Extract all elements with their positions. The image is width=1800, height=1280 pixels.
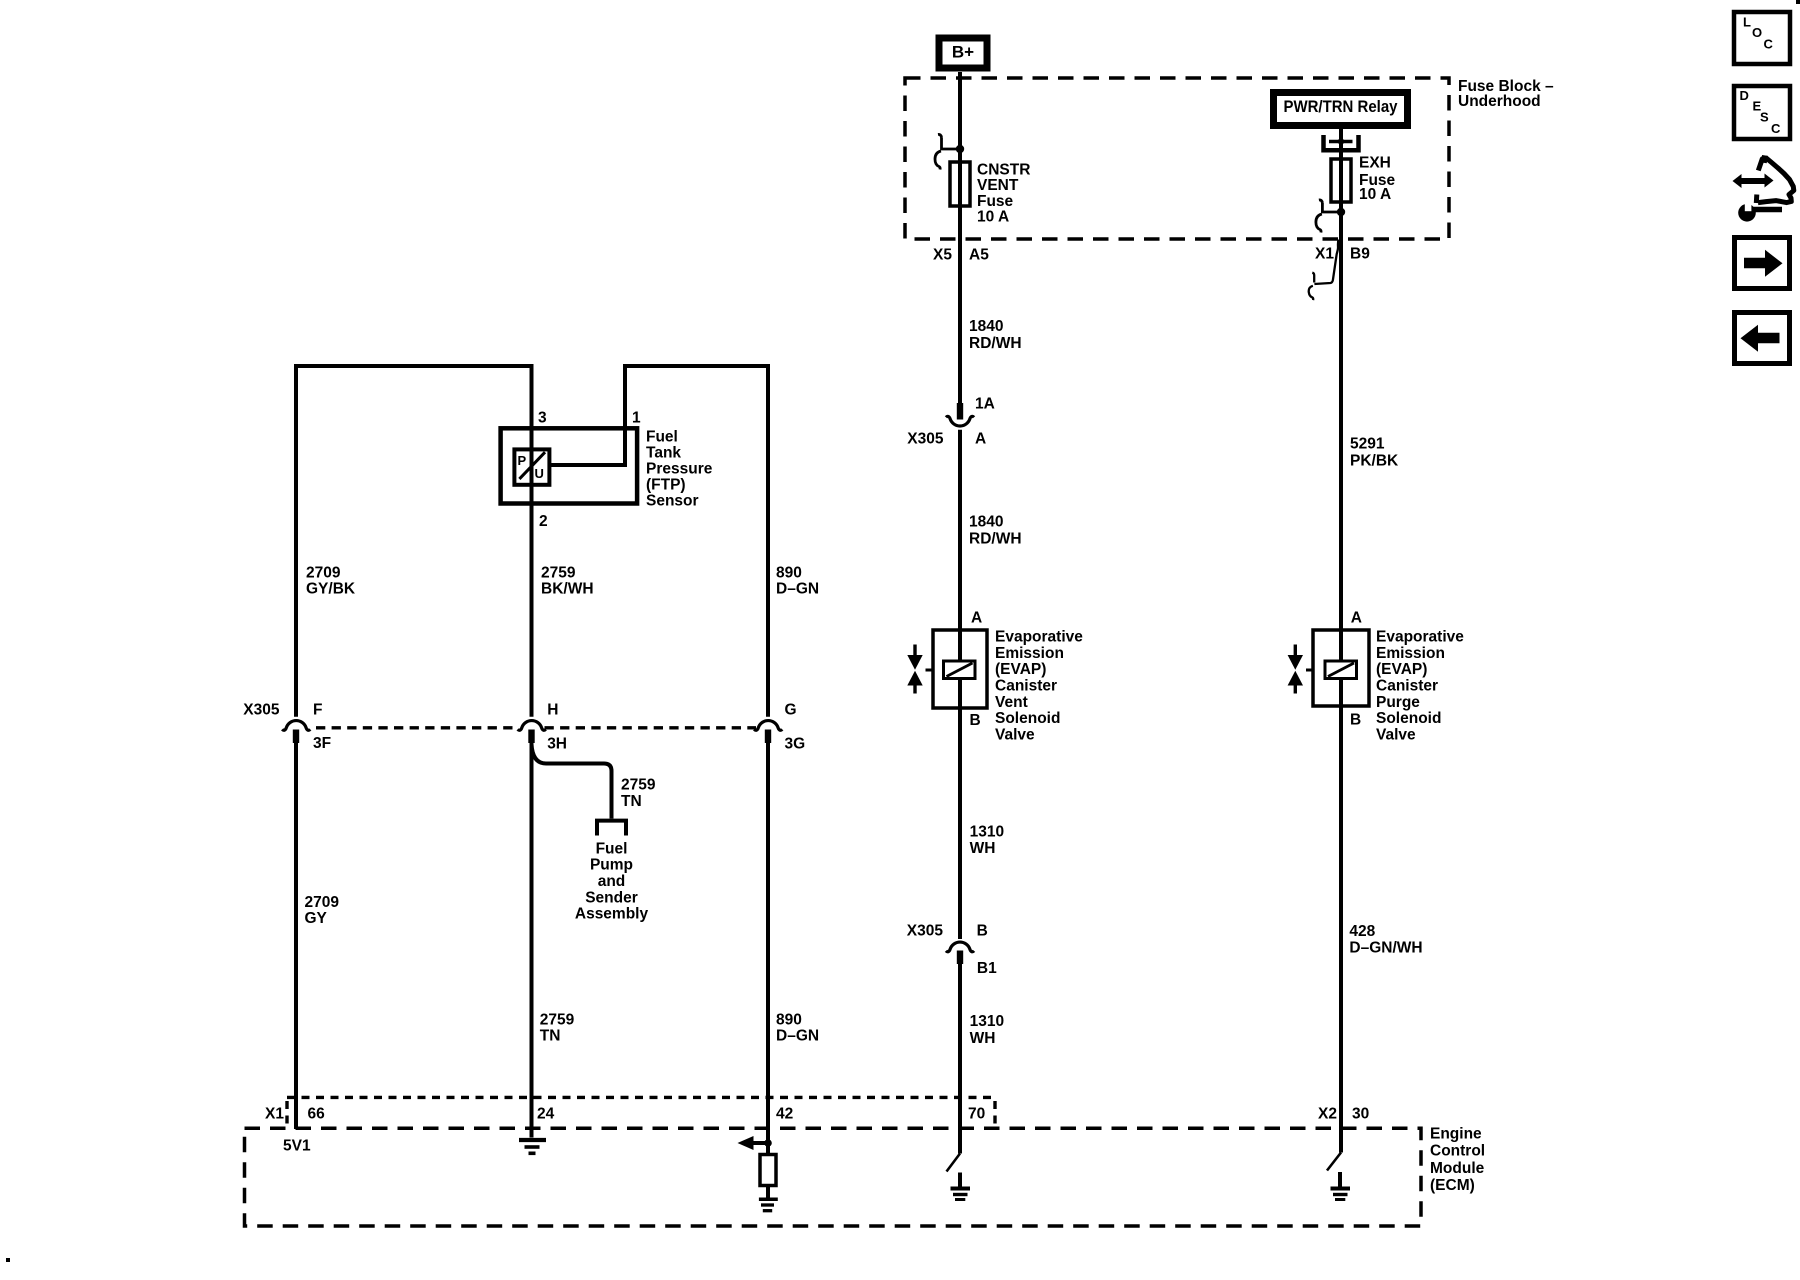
shortcut scribble icon (wrench): [1738, 204, 1756, 222]
FTP sensor outer loop: left wire: [294, 366, 298, 717]
shortcut scribble icon (freehand outline): [1756, 158, 1794, 203]
valve symbol: [913, 645, 916, 657]
valve symbol: [1294, 645, 1297, 657]
resistor inside ECM: [760, 1155, 776, 1186]
svg-text:2759: 2759: [621, 777, 656, 794]
arrow into ECM pin 42: [752, 1141, 766, 1145]
wire: vent solenoid B to X305 B: [958, 679, 962, 940]
svg-text:X1: X1: [1315, 245, 1334, 262]
svg-text:GY/BK: GY/BK: [306, 581, 356, 598]
svg-text:Sender: Sender: [585, 889, 638, 906]
page artifact dot: [6, 1258, 10, 1262]
svg-text:X2: X2: [1318, 1106, 1337, 1123]
svg-text:X5: X5: [933, 246, 952, 263]
svg-text:30: 30: [1352, 1106, 1369, 1123]
svg-text:Valve: Valve: [995, 726, 1035, 743]
clip symbol at CNSTR VENT fuse junction: [935, 134, 956, 169]
svg-text:Pump: Pump: [590, 857, 633, 874]
svg-text:2709: 2709: [306, 565, 341, 582]
svg-text:Underhood: Underhood: [1458, 93, 1541, 110]
svg-text:Emission: Emission: [1376, 645, 1445, 662]
svg-text:5291: 5291: [1350, 436, 1385, 453]
wire: B+ down through CNSTR VENT fuse to X305 A connector: [958, 72, 962, 404]
svg-text:Fuel: Fuel: [596, 840, 628, 857]
svg-text:Fuse: Fuse: [977, 193, 1014, 210]
svg-text:X305: X305: [243, 702, 280, 719]
svg-text:Fuel: Fuel: [646, 428, 678, 445]
svg-text:Engine: Engine: [1430, 1125, 1482, 1142]
svg-text:Evaporative: Evaporative: [1376, 629, 1464, 646]
svg-text:U: U: [535, 466, 544, 481]
svg-text:A: A: [971, 609, 982, 626]
connector X305 A (male bar): [957, 403, 963, 420]
svg-text:70: 70: [968, 1106, 985, 1123]
coil stub: [926, 669, 934, 672]
svg-text:Canister: Canister: [995, 677, 1057, 694]
coil stub: [1306, 669, 1313, 672]
svg-text:CNSTR: CNSTR: [977, 161, 1030, 178]
EXH fuse: [1331, 159, 1351, 202]
svg-text:D–GN: D–GN: [776, 581, 819, 598]
wire: purge solenoid B to ECM pin 30: [1339, 679, 1343, 1153]
svg-text:Sensor: Sensor: [646, 492, 699, 509]
connector F (dome + bar): [282, 721, 310, 731]
svg-text:2759: 2759: [540, 1012, 575, 1029]
connector X305 B (male bar): [957, 951, 963, 965]
wire: H to ECM pin 24 ground: [530, 743, 534, 1138]
svg-text:3G: 3G: [785, 735, 806, 752]
svg-text:Solenoid: Solenoid: [1376, 710, 1441, 727]
svg-text:PWR/TRN Relay: PWR/TRN Relay: [1284, 97, 1398, 116]
shortcut scribble icon (double arrow): [1740, 178, 1767, 184]
svg-text:C: C: [1764, 36, 1774, 51]
svg-text:2759: 2759: [541, 565, 576, 582]
B+ battery feed box: [939, 38, 987, 68]
junction dot below EXH fuse: [1337, 208, 1345, 216]
svg-text:BK/WH: BK/WH: [541, 581, 594, 598]
connector X305 A (female cup): [946, 416, 974, 426]
svg-text:1A: 1A: [975, 396, 995, 413]
svg-text:Control: Control: [1430, 1143, 1485, 1160]
svg-text:X1: X1: [265, 1106, 284, 1123]
wire: X305 A to EVAP vent solenoid: [958, 430, 962, 661]
svg-text:Valve: Valve: [1376, 726, 1416, 743]
svg-text:Vent: Vent: [995, 694, 1028, 711]
ground at ECM pin 70: [958, 1173, 962, 1188]
ground below resistor: [759, 1198, 778, 1202]
svg-text:3H: 3H: [547, 735, 567, 752]
P/U square diagonal: [519, 452, 545, 479]
svg-text:Canister: Canister: [1376, 677, 1438, 694]
svg-text:O: O: [1752, 25, 1762, 40]
svg-text:B9: B9: [1350, 245, 1370, 262]
svg-text:TN: TN: [540, 1028, 561, 1045]
solenoid coil: [1325, 661, 1357, 679]
svg-text:428: 428: [1349, 923, 1375, 940]
wire: relay through EXH fuse down: [1339, 129, 1343, 661]
svg-text:Solenoid: Solenoid: [995, 710, 1060, 727]
ground at ECM pin 24: [519, 1138, 546, 1142]
svg-text:2709: 2709: [305, 894, 340, 911]
svg-text:F: F: [313, 702, 322, 719]
svg-text:1840: 1840: [969, 514, 1003, 531]
svg-text:WH: WH: [970, 1030, 996, 1047]
svg-text:B1: B1: [977, 960, 997, 977]
svg-text:Module: Module: [1430, 1160, 1485, 1177]
svg-text:H: H: [547, 701, 558, 718]
connector H (dome + bar): [518, 721, 546, 731]
solenoid coil: [944, 661, 976, 679]
svg-text:B: B: [977, 923, 988, 940]
svg-text:1840: 1840: [969, 318, 1003, 335]
svg-text:(EVAP): (EVAP): [995, 661, 1046, 678]
svg-text:66: 66: [308, 1106, 326, 1123]
back arrow icon: [1735, 313, 1790, 364]
svg-text:1310: 1310: [970, 824, 1004, 841]
svg-text:A: A: [975, 430, 986, 447]
svg-text:S: S: [1760, 109, 1769, 124]
svg-text:D–GN/WH: D–GN/WH: [1349, 939, 1422, 956]
svg-text:Emission: Emission: [995, 645, 1064, 662]
svg-text:Evaporative: Evaporative: [995, 629, 1083, 646]
svg-text:Assembly: Assembly: [575, 906, 649, 923]
svg-text:10 A: 10 A: [977, 209, 1009, 226]
CNSTR VENT fuse: [950, 162, 970, 206]
ECM dashed box: [245, 1128, 1422, 1226]
svg-text:1310: 1310: [970, 1013, 1004, 1030]
svg-text:2: 2: [539, 513, 548, 530]
svg-text:D: D: [1740, 88, 1749, 103]
top loop wires: [294, 366, 532, 717]
svg-text:L: L: [1743, 14, 1751, 29]
svg-text:and: and: [598, 873, 626, 890]
svg-text:3F: 3F: [313, 735, 331, 752]
svg-text:24: 24: [537, 1106, 555, 1123]
svg-text:A: A: [1351, 609, 1362, 626]
DESC navigation icon: [1734, 86, 1790, 139]
svg-text:X305: X305: [907, 430, 944, 447]
svg-text:(ECM): (ECM): [1430, 1177, 1475, 1194]
svg-text:(EVAP): (EVAP): [1376, 661, 1427, 678]
svg-text:B+: B+: [952, 42, 974, 61]
forward arrow icon: [1735, 238, 1790, 289]
PWR/TRN relay box: [1274, 93, 1408, 126]
svg-text:EXH: EXH: [1359, 155, 1391, 172]
svg-text:RD/WH: RD/WH: [969, 531, 1022, 548]
branch wire to fuel pump: [532, 744, 612, 819]
X305 inline connector dashed line: [316, 726, 756, 729]
svg-text:X305: X305: [907, 923, 944, 940]
freehand clip annotation below X1/B9: [1309, 240, 1339, 301]
wire: G to ECM pin 42: [766, 743, 770, 1155]
svg-text:VENT: VENT: [977, 177, 1019, 194]
fuel pump connector bracket: [597, 821, 626, 836]
svg-text:RD/WH: RD/WH: [969, 335, 1022, 352]
fuse block - underhood dashed box: [905, 78, 1449, 239]
svg-text:P: P: [518, 453, 527, 468]
svg-text:5V1: 5V1: [283, 1137, 311, 1154]
svg-text:1: 1: [632, 409, 641, 426]
svg-text:Tank: Tank: [646, 444, 681, 461]
wire: X305 B to ECM pin 70: [958, 964, 962, 1154]
connector G (dome + bar): [754, 721, 782, 731]
svg-text:10 A: 10 A: [1359, 186, 1391, 203]
relay socket bracket: [1324, 135, 1359, 150]
connector X305 B (dome): [946, 942, 974, 952]
svg-text:C: C: [1771, 121, 1781, 136]
svg-text:B: B: [1350, 711, 1361, 728]
svg-text:Pressure: Pressure: [646, 460, 713, 477]
svg-text:WH: WH: [970, 840, 996, 857]
svg-text:TN: TN: [621, 793, 642, 810]
svg-text:890: 890: [776, 565, 802, 582]
svg-text:42: 42: [776, 1106, 793, 1123]
svg-text:PK/BK: PK/BK: [1350, 452, 1399, 469]
clip symbol at EXH fuse junction: [1316, 200, 1337, 233]
svg-text:A5: A5: [969, 246, 989, 263]
svg-text:B: B: [970, 712, 981, 729]
svg-text:(FTP): (FTP): [646, 476, 686, 493]
svg-text:890: 890: [776, 1012, 802, 1029]
switch contact at ECM pin 70: [947, 1154, 961, 1172]
LOC navigation icon: [1734, 12, 1790, 64]
P/U pressure sensor square: [514, 449, 549, 484]
svg-text:Purge: Purge: [1376, 694, 1420, 711]
svg-text:GY: GY: [305, 910, 328, 927]
svg-text:D–GN: D–GN: [776, 1028, 819, 1045]
junction dot above CNSTR VENT fuse: [956, 145, 964, 153]
switch contact at ECM pin 30: [1327, 1153, 1341, 1171]
svg-text:G: G: [785, 702, 797, 719]
page artifact mark top-right: [1796, 0, 1800, 4]
wire: F to ECM pin 66: [294, 743, 298, 1129]
FTP sensor box: [501, 428, 637, 503]
X1 ECM connector dotted line: [287, 1097, 995, 1128]
ground at ECM pin 30: [1338, 1172, 1342, 1187]
svg-text:3: 3: [538, 409, 547, 426]
